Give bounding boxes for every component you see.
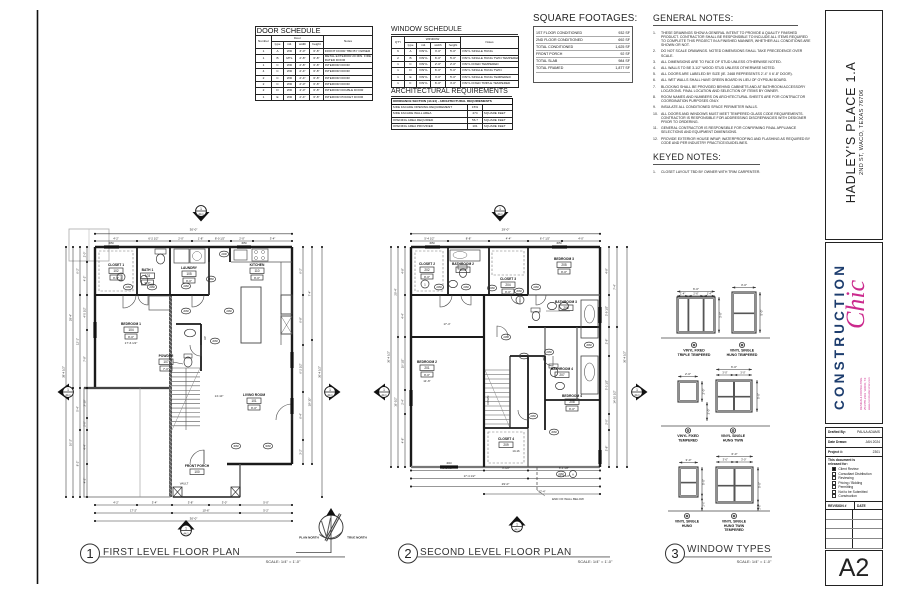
svg-text:3'-8": 3'-8" bbox=[605, 446, 609, 452]
svg-text:204: 204 bbox=[505, 283, 511, 287]
svg-text:2408: 2408 bbox=[221, 253, 227, 256]
svg-text:3'-8": 3'-8" bbox=[188, 501, 194, 505]
svg-text:208: 208 bbox=[569, 400, 575, 404]
svg-text:5'-0": 5'-0" bbox=[758, 482, 762, 488]
svg-text:4'-4": 4'-4" bbox=[401, 313, 405, 319]
svg-text:A4.1: A4.1 bbox=[183, 532, 189, 536]
svg-text:5'-0": 5'-0" bbox=[702, 479, 706, 485]
svg-text:VAULT: VAULT bbox=[180, 482, 189, 486]
svg-text:9'-0": 9'-0" bbox=[128, 335, 134, 339]
svg-text:6'-8": 6'-8" bbox=[299, 317, 303, 323]
svg-text:3'-0": 3'-0" bbox=[740, 371, 745, 375]
svg-text:A: A bbox=[572, 472, 574, 476]
svg-text:38'-4 1/2": 38'-4 1/2" bbox=[62, 366, 66, 378]
svg-text:5'-3 1/2": 5'-3 1/2" bbox=[605, 380, 609, 390]
svg-text:2668: 2668 bbox=[586, 344, 592, 347]
svg-text:LIVING ROOM: LIVING ROOM bbox=[243, 393, 265, 397]
svg-text:4'-2": 4'-2" bbox=[83, 478, 87, 484]
svg-text:6'-1 1/8": 6'-1 1/8" bbox=[559, 466, 569, 470]
svg-text:10'-5 1/2": 10'-5 1/2" bbox=[558, 474, 570, 478]
svg-text:104: 104 bbox=[128, 328, 134, 332]
svg-text:3050: 3050 bbox=[429, 242, 435, 245]
svg-text:4'-2": 4'-2" bbox=[113, 237, 119, 241]
svg-text:6068: 6068 bbox=[265, 445, 271, 448]
svg-text:BEDROOM 4: BEDROOM 4 bbox=[562, 394, 582, 398]
svg-text:16'-1/2": 16'-1/2" bbox=[394, 397, 398, 406]
svg-text:10-16: 10-16 bbox=[512, 449, 520, 453]
svg-text:2'-0": 2'-0" bbox=[83, 252, 87, 258]
svg-text:6'-2 1/2": 6'-2 1/2" bbox=[148, 237, 158, 241]
svg-text:2'-0": 2'-0" bbox=[178, 237, 184, 241]
svg-text:SCALE: 1/4" = 1'-0": SCALE: 1/4" = 1'-0" bbox=[578, 559, 613, 564]
svg-text:4'-2": 4'-2" bbox=[83, 276, 87, 282]
svg-text:17'-4": 17'-4" bbox=[443, 322, 450, 326]
svg-text:29'-0": 29'-0" bbox=[502, 228, 510, 232]
svg-text:1'-4": 1'-4" bbox=[680, 292, 685, 296]
svg-text:107: 107 bbox=[163, 360, 169, 364]
svg-text:14'-10 1/2": 14'-10 1/2" bbox=[613, 390, 617, 403]
svg-text:29'-0": 29'-0" bbox=[502, 482, 510, 486]
svg-text:TRUE NORTH: TRUE NORTH bbox=[347, 536, 367, 540]
svg-text:17'-6 1/2": 17'-6 1/2" bbox=[125, 341, 138, 345]
svg-text:BEDROOM 1: BEDROOM 1 bbox=[121, 322, 141, 326]
svg-text:6'-0": 6'-0" bbox=[731, 365, 737, 369]
svg-text:6'-0": 6'-0" bbox=[732, 452, 738, 456]
svg-text:2'-0": 2'-0" bbox=[759, 504, 762, 509]
svg-text:CLOSET 4: CLOSET 4 bbox=[498, 437, 514, 441]
svg-text:3050: 3050 bbox=[556, 242, 562, 245]
svg-text:36'-4 1/2": 36'-4 1/2" bbox=[318, 366, 322, 378]
svg-text:1: 1 bbox=[86, 546, 93, 561]
svg-text:18'-10": 18'-10" bbox=[308, 398, 312, 407]
svg-text:A4.1: A4.1 bbox=[634, 393, 640, 397]
svg-text:6'-7 1/2": 6'-7 1/2" bbox=[540, 237, 550, 241]
svg-text:9'-0": 9'-0" bbox=[505, 290, 511, 294]
svg-text:2'-6": 2'-6" bbox=[693, 292, 698, 296]
svg-text:A4.1: A4.1 bbox=[198, 212, 204, 216]
svg-text:1: 1 bbox=[383, 388, 385, 392]
svg-text:2068: 2068 bbox=[183, 310, 189, 313]
svg-text:8'-8": 8'-8" bbox=[466, 237, 472, 241]
svg-text:1: 1 bbox=[67, 388, 69, 392]
svg-text:3'-0": 3'-0" bbox=[686, 458, 692, 462]
svg-text:2468: 2468 bbox=[530, 415, 536, 418]
svg-text:6'-2": 6'-2" bbox=[76, 268, 80, 274]
svg-text:HUNG: HUNG bbox=[682, 524, 693, 528]
svg-text:SCALE: 1/4" = 1'-0": SCALE: 1/4" = 1'-0" bbox=[737, 559, 772, 564]
svg-text:1'-8": 1'-8" bbox=[198, 237, 204, 241]
svg-text:3050: 3050 bbox=[108, 242, 114, 245]
svg-text:LAUNDRY: LAUNDRY bbox=[181, 266, 198, 270]
svg-text:DOWN: DOWN bbox=[486, 396, 490, 405]
svg-text:POWDER: POWDER bbox=[159, 354, 174, 358]
svg-text:9'-0": 9'-0" bbox=[113, 276, 119, 280]
svg-text:3'-0": 3'-0" bbox=[741, 283, 747, 287]
svg-text:2068: 2068 bbox=[212, 340, 218, 343]
svg-text:3'-0": 3'-0" bbox=[222, 501, 228, 505]
svg-text:KITCHEN: KITCHEN bbox=[250, 263, 265, 267]
svg-text:TEMPERED: TEMPERED bbox=[724, 528, 744, 532]
svg-text:HUNG TEMPERED: HUNG TEMPERED bbox=[727, 353, 758, 357]
svg-text:9'-0": 9'-0" bbox=[424, 275, 430, 279]
svg-text:6'-0": 6'-0" bbox=[693, 287, 699, 291]
svg-text:A4.1: A4.1 bbox=[514, 528, 520, 532]
svg-text:203: 203 bbox=[460, 268, 466, 272]
svg-text:105: 105 bbox=[186, 272, 192, 276]
svg-text:2468: 2468 bbox=[463, 286, 469, 289]
svg-text:2'-4": 2'-4" bbox=[401, 399, 405, 405]
svg-text:A4.1: A4.1 bbox=[497, 212, 503, 216]
svg-text:9'-0": 9'-0" bbox=[424, 373, 430, 377]
svg-text:4'-8": 4'-8" bbox=[401, 268, 405, 274]
svg-text:5'-0": 5'-0" bbox=[760, 310, 764, 316]
svg-text:20'-4": 20'-4" bbox=[394, 288, 398, 295]
svg-text:A4.1: A4.1 bbox=[65, 393, 71, 397]
svg-text:202: 202 bbox=[424, 268, 430, 272]
svg-text:FRONT PORCH: FRONT PORCH bbox=[185, 464, 210, 468]
svg-text:110: 110 bbox=[254, 269, 259, 273]
svg-text:2'-0": 2'-0" bbox=[239, 237, 245, 241]
svg-text:2068: 2068 bbox=[521, 355, 527, 358]
svg-text:9'-0": 9'-0" bbox=[251, 406, 257, 410]
svg-text:11'-6": 11'-6" bbox=[423, 379, 430, 383]
svg-text:TRIPLE TEMPERED: TRIPLE TEMPERED bbox=[678, 353, 711, 357]
svg-text:4'-8": 4'-8" bbox=[401, 438, 405, 444]
svg-text:2468: 2468 bbox=[436, 286, 442, 289]
svg-text:1: 1 bbox=[200, 207, 202, 211]
svg-text:BATHROOM 3: BATHROOM 3 bbox=[555, 300, 577, 304]
svg-text:103: 103 bbox=[145, 274, 151, 278]
svg-text:4'-0": 4'-0" bbox=[578, 237, 584, 241]
svg-text:2468: 2468 bbox=[533, 286, 539, 289]
svg-text:PLAN NORTH: PLAN NORTH bbox=[299, 536, 319, 540]
svg-text:3'-0": 3'-0" bbox=[719, 312, 723, 318]
svg-text:5'-4 1/2": 5'-4 1/2" bbox=[424, 237, 434, 241]
svg-text:3'-0": 3'-0" bbox=[723, 458, 728, 462]
svg-text:3: 3 bbox=[671, 546, 678, 561]
svg-text:30'-0": 30'-0" bbox=[190, 517, 198, 521]
svg-text:12'-4": 12'-4" bbox=[538, 490, 545, 494]
svg-text:1'-4": 1'-4" bbox=[707, 292, 712, 296]
svg-text:1: 1 bbox=[329, 388, 331, 392]
svg-text:2868: 2868 bbox=[208, 278, 214, 281]
svg-text:101: 101 bbox=[251, 399, 257, 403]
svg-text:2468: 2468 bbox=[183, 285, 189, 288]
svg-text:A4.1: A4.1 bbox=[327, 393, 333, 397]
svg-text:4'-1/2": 4'-1/2" bbox=[502, 466, 510, 470]
svg-text:BEDROOM 3: BEDROOM 3 bbox=[554, 257, 574, 261]
svg-text:9'-0": 9'-0" bbox=[569, 407, 575, 411]
svg-text:10'-1/2": 10'-1/2" bbox=[401, 359, 405, 368]
svg-text:2068: 2068 bbox=[516, 290, 522, 293]
svg-text:UP: UP bbox=[203, 336, 207, 340]
svg-text:2468: 2468 bbox=[489, 287, 495, 290]
svg-text:2468: 2468 bbox=[125, 286, 131, 289]
svg-text:205: 205 bbox=[561, 263, 567, 267]
svg-text:1: 1 bbox=[636, 388, 638, 392]
svg-text:2'-0": 2'-0" bbox=[83, 421, 87, 427]
svg-text:36'-4 1/2": 36'-4 1/2" bbox=[623, 351, 627, 363]
svg-text:1: 1 bbox=[185, 527, 187, 531]
svg-text:2'-0": 2'-0" bbox=[702, 389, 706, 395]
svg-text:3050: 3050 bbox=[241, 242, 247, 245]
svg-text:6'-2 1/2": 6'-2 1/2" bbox=[299, 363, 303, 373]
svg-text:2068: 2068 bbox=[551, 431, 557, 434]
svg-text:8'-0 1/2": 8'-0 1/2" bbox=[215, 237, 225, 241]
svg-text:9'-0": 9'-0" bbox=[561, 270, 567, 274]
svg-text:3'-2": 3'-2" bbox=[299, 449, 303, 455]
svg-text:3068: 3068 bbox=[233, 445, 239, 448]
svg-text:12'-1": 12'-1" bbox=[76, 338, 80, 345]
svg-text:3'-10": 3'-10" bbox=[83, 399, 87, 406]
svg-text:BATHROOM 4: BATHROOM 4 bbox=[551, 367, 573, 371]
svg-text:17'-2": 17'-2" bbox=[130, 509, 137, 513]
svg-text:209: 209 bbox=[503, 443, 509, 447]
svg-text:2: 2 bbox=[404, 546, 411, 561]
svg-text:HUNG TWIN: HUNG TWIN bbox=[723, 438, 744, 442]
svg-text:BATH 1: BATH 1 bbox=[142, 268, 154, 272]
svg-text:102: 102 bbox=[113, 269, 119, 273]
svg-text:207: 207 bbox=[559, 373, 565, 377]
svg-text:1: 1 bbox=[516, 523, 518, 527]
svg-text:7'-4": 7'-4" bbox=[613, 284, 617, 290]
svg-text:36'-4 1/2": 36'-4 1/2" bbox=[387, 351, 391, 363]
svg-text:4'-4": 4'-4" bbox=[83, 444, 87, 450]
svg-text:30'-0": 30'-0" bbox=[190, 228, 198, 232]
svg-text:14'-10": 14'-10" bbox=[215, 394, 224, 398]
svg-text:7'-0": 7'-0" bbox=[163, 367, 169, 371]
svg-text:3'-0": 3'-0" bbox=[707, 409, 711, 415]
svg-text:2468: 2468 bbox=[546, 351, 552, 354]
svg-text:3'-4": 3'-4" bbox=[152, 501, 158, 505]
svg-text:5'-0": 5'-0" bbox=[757, 393, 761, 399]
svg-text:5'-2": 5'-2" bbox=[263, 509, 269, 513]
svg-text:TEMPERED: TEMPERED bbox=[678, 438, 698, 442]
svg-text:6'-1 7/8": 6'-1 7/8" bbox=[442, 466, 452, 470]
svg-text:10'-6": 10'-6" bbox=[202, 509, 209, 513]
svg-text:CLOSET 1: CLOSET 1 bbox=[108, 263, 124, 267]
svg-text:4'-4": 4'-4" bbox=[506, 237, 512, 241]
svg-text:2'-0": 2'-0" bbox=[703, 501, 706, 506]
svg-text:2'-0": 2'-0" bbox=[685, 372, 691, 376]
svg-text:1: 1 bbox=[499, 207, 501, 211]
svg-text:4'-8": 4'-8" bbox=[605, 268, 609, 274]
svg-text:2468: 2468 bbox=[226, 310, 232, 313]
svg-text:4'-2": 4'-2" bbox=[113, 501, 119, 505]
svg-text:SCALE: 1/4" = 1'-0": SCALE: 1/4" = 1'-0" bbox=[266, 559, 301, 564]
svg-text:3'-0": 3'-0" bbox=[722, 371, 727, 375]
svg-text:6'-2": 6'-2" bbox=[299, 268, 303, 274]
svg-text:9'-0": 9'-0" bbox=[254, 276, 260, 280]
svg-text:5'-0": 5'-0" bbox=[263, 501, 269, 505]
svg-text:5'-4": 5'-4" bbox=[76, 406, 80, 412]
svg-text:10'-2": 10'-2" bbox=[69, 439, 73, 446]
svg-text:100: 100 bbox=[194, 470, 200, 474]
svg-text:1: 1 bbox=[424, 282, 426, 286]
svg-text:CLOSET 3: CLOSET 3 bbox=[500, 277, 516, 281]
svg-text:29'-4": 29'-4" bbox=[69, 314, 73, 321]
svg-text:3'-4": 3'-4" bbox=[270, 237, 276, 241]
svg-text:3'-0": 3'-0" bbox=[741, 458, 746, 462]
svg-text:BATHROOM 2: BATHROOM 2 bbox=[452, 262, 474, 266]
svg-text:CLOSET 2: CLOSET 2 bbox=[419, 262, 435, 266]
svg-text:2468: 2468 bbox=[149, 286, 155, 289]
svg-text:206: 206 bbox=[563, 306, 569, 310]
svg-text:4'-5 1/2": 4'-5 1/2" bbox=[83, 307, 87, 317]
svg-text:201: 201 bbox=[424, 366, 430, 370]
svg-text:17'-4 1/2": 17'-4 1/2" bbox=[464, 474, 476, 478]
svg-text:END OF WALL BELOW: END OF WALL BELOW bbox=[552, 497, 584, 501]
svg-text:6'-4": 6'-4" bbox=[299, 413, 303, 419]
svg-text:7'-4": 7'-4" bbox=[308, 291, 312, 297]
svg-text:2'-0": 2'-0" bbox=[605, 419, 609, 425]
svg-text:A4.1: A4.1 bbox=[381, 393, 387, 397]
svg-text:3'-9 1/2": 3'-9 1/2" bbox=[605, 306, 609, 316]
svg-text:8'-2": 8'-2" bbox=[76, 461, 80, 467]
svg-text:4040: 4040 bbox=[446, 462, 452, 465]
svg-text:9'-0": 9'-0" bbox=[186, 279, 192, 283]
svg-text:2468: 2468 bbox=[503, 336, 509, 339]
svg-text:BEDROOM 2: BEDROOM 2 bbox=[417, 360, 437, 364]
svg-text:2'-8": 2'-8" bbox=[605, 339, 609, 345]
svg-text:7'-8": 7'-8" bbox=[83, 356, 87, 362]
